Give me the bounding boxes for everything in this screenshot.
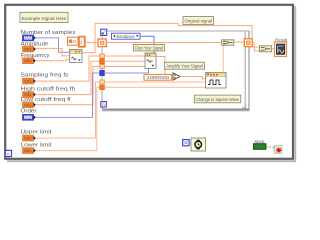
wire original signal top run: [95, 23, 260, 47]
svg-text:Bandpass: Bandpass: [117, 34, 136, 39]
numeric constant 50: [68, 37, 79, 45]
iteration terminal i while loop: [5, 150, 11, 156]
wire tunnel tB to simulate2: [104, 86, 205, 88]
control stop: [254, 139, 266, 150]
control High cutoff freq fh: [21, 87, 76, 98]
wire signal to merge1: [106, 42, 221, 44]
wire simulate2 output up to merge1: [222, 45, 224, 73]
control Low cutoff freq fl: [21, 97, 71, 108]
svg-text:I32: I32: [25, 116, 32, 120]
case structure frame: [102, 31, 250, 111]
wire tunnel t2 to filter: [104, 60, 145, 62]
wire Sampling freq fs: [36, 56, 100, 81]
loop condition terminal: [274, 146, 282, 153]
svg-text:Example Signal Here: Example Signal Here: [22, 16, 67, 22]
resize handle case structure: [242, 106, 246, 108]
control Lower limit: [21, 142, 53, 153]
control Sampling freq fs: [21, 72, 69, 84]
control Number of samples: [21, 30, 76, 41]
svg-text:DBL: DBL: [24, 137, 32, 141]
wire enum to filter (blue): [140, 36, 154, 53]
while loop border: [5, 5, 296, 162]
label Original signal: [183, 17, 214, 25]
wire stop to condition (dashed green): [266, 146, 274, 148]
wire tunnel tA to simulate2: [104, 81, 205, 83]
svg-text:DBL: DBL: [24, 80, 32, 84]
svg-text:TF: TF: [256, 144, 264, 149]
label Change to Square Wave: [194, 95, 241, 103]
svg-text:DBL: DBL: [24, 103, 32, 107]
multiply function: [173, 73, 180, 81]
wire tunnel t4 to filter (blue): [104, 69, 148, 74]
wire constant to ring tunnel: [85, 42, 98, 44]
tunnel t2 high cutoff: [100, 59, 105, 64]
wire Simulate Signal output: [82, 52, 95, 54]
tunnel t1 sampling: [100, 54, 105, 58]
merge signals 1: [222, 40, 234, 45]
express VI Simulate2 square wave: [206, 73, 227, 89]
label Amplify Your Signal: [165, 62, 205, 69]
svg-text:Sampling freq fs: Sampling freq fs: [21, 72, 69, 78]
iteration terminal i (case inner): [101, 102, 107, 108]
wire Frequency: [36, 59, 70, 60]
wire High cutoff freq fh: [36, 61, 100, 94]
wire original signal vertical: [94, 23, 96, 52]
wire Low cutoff freq fl: [36, 67, 100, 105]
wire tunnel t1 to filter: [104, 55, 145, 57]
control Upper limit: [21, 130, 53, 141]
wire multiply output to simulate2: [180, 77, 206, 79]
control Frequency: [21, 53, 50, 64]
tunnel tB lower limit: [100, 85, 105, 89]
tunnel t4 order (blue): [100, 71, 105, 76]
svg-text:DBL: DBL: [24, 48, 32, 52]
svg-text:Change to Square Wave: Change to Square Wave: [196, 97, 239, 102]
wait ms timer: [191, 138, 206, 151]
label Example Signal Here: [20, 12, 68, 22]
svg-text:Order: Order: [21, 109, 37, 115]
wire constant to multiply: [172, 77, 174, 79]
wire tunnel t3 to filter: [104, 66, 145, 68]
wire Order (blue): [36, 73, 100, 117]
svg-text:I32: I32: [25, 36, 32, 40]
control Amplitude: [21, 41, 49, 52]
wire merge2 to result: [272, 48, 275, 50]
wire Upper limit: [36, 82, 100, 138]
merge signals 2: [260, 46, 272, 52]
tunnel tA upper limit: [100, 80, 105, 84]
wire filter output: [156, 57, 173, 75]
wire ring out to merge2: [252, 43, 259, 51]
svg-text:Amplify Your Signal: Amplify Your Signal: [166, 64, 203, 69]
tunnel t3 low cutoff: [100, 65, 105, 69]
numeric constant wait: [183, 140, 189, 146]
wire merge1 to right ring tunnel: [234, 41, 245, 43]
numeric constant 1000000: [144, 74, 172, 80]
loop count terminal N: [101, 29, 107, 35]
svg-text:stop: stop: [254, 139, 265, 144]
svg-text:Filter Your Signal: Filter Your Signal: [135, 46, 163, 51]
wire Amplitude: [36, 48, 70, 56]
label Filter Your Signal: [134, 44, 165, 51]
indicator Result: [275, 37, 288, 56]
svg-text:DBL: DBL: [24, 59, 32, 63]
wire Number of samples (blue): [36, 38, 70, 52]
svg-text:s: s: [80, 41, 82, 45]
express VI Filter: [145, 53, 156, 69]
control Order: [21, 109, 37, 121]
enum selector Bandpass: [112, 33, 141, 39]
svg-text:Upper limit: Upper limit: [21, 130, 53, 136]
svg-text:DBL: DBL: [24, 149, 32, 153]
conversion node: [79, 37, 85, 47]
tunnel ring signal out: [244, 39, 252, 47]
svg-text:Original signal: Original signal: [185, 19, 213, 24]
express VI Simulate Signal: [70, 50, 83, 63]
wire wait constant: [189, 142, 191, 144]
wire Lower limit: [36, 87, 100, 150]
tunnel ring signal in: [98, 39, 106, 47]
svg-text:1000000: 1000000: [147, 75, 170, 80]
